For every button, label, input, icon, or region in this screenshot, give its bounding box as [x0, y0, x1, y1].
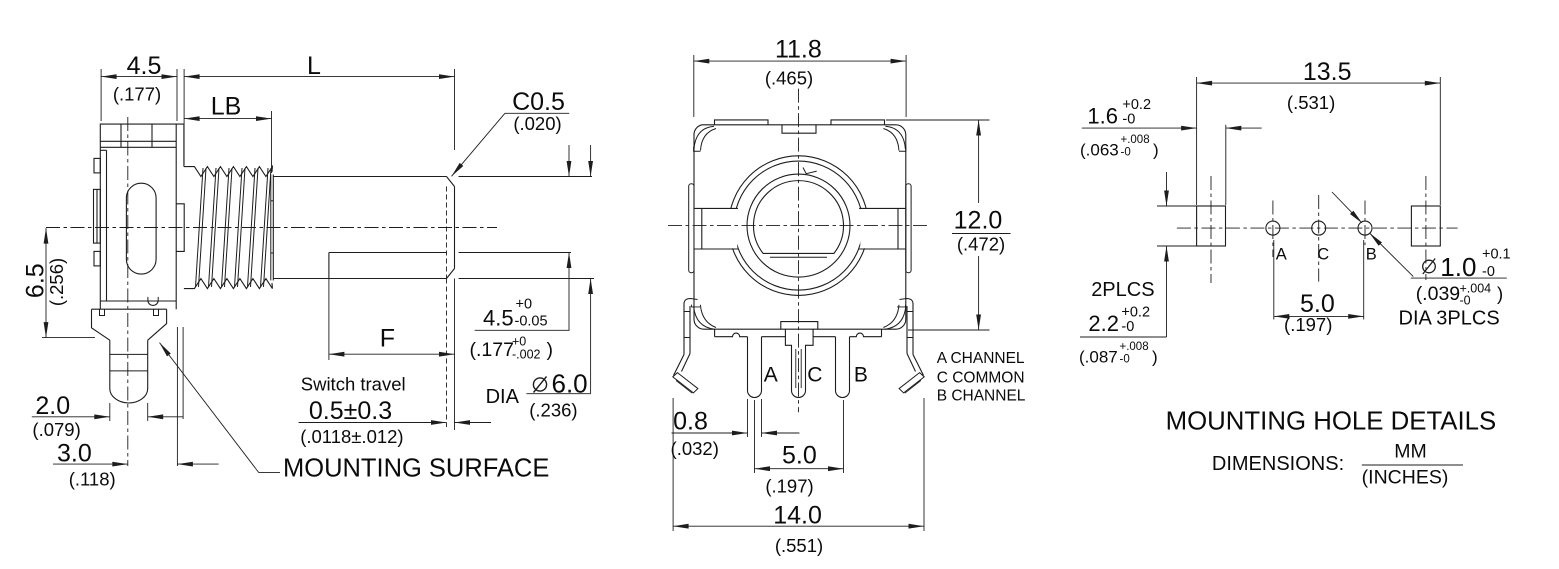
svg-text:(.465): (.465)	[765, 68, 813, 89]
svg-text:-.002: -.002	[512, 348, 541, 362]
svg-text:MOUNTING SURFACE: MOUNTING SURFACE	[283, 455, 549, 483]
front view: inner circles	[747, 174, 850, 277]
dimension switch travel: extension of pressed position	[446, 279, 448, 428]
front view: top-left corner wrap tab	[694, 126, 714, 149]
svg-text:L: L	[307, 52, 321, 80]
svg-text:2PLCS: 2PLCS	[1091, 279, 1154, 301]
mounting view: right hole vertical center line	[1425, 176, 1427, 280]
front view: right side ear	[906, 184, 911, 273]
svg-text:-0: -0	[1482, 264, 1495, 280]
svg-text:3.0: 3.0	[57, 440, 92, 468]
svg-text:-0.05: -0.05	[515, 314, 548, 330]
svg-text:Switch travel: Switch travel	[301, 374, 406, 395]
front view: body outline	[694, 125, 906, 329]
front view: pin C with base	[785, 329, 813, 397]
dimension DIA 6.0: arrows and leader	[590, 145, 592, 177]
dimension 6.5 height: dimension line with arrows	[45, 228, 47, 338]
left view: horizontal center line	[46, 227, 497, 229]
front view: D-shaped shaft hole	[754, 181, 844, 254]
svg-text:-0: -0	[1122, 112, 1135, 128]
left view shaft: flat start step	[328, 253, 330, 279]
dimension switch travel 0.5: leader line	[299, 422, 434, 424]
svg-text:(.087: (.087	[1079, 348, 1118, 367]
svg-text:(.256): (.256)	[46, 258, 67, 306]
dimension L: dimension line	[184, 76, 454, 78]
mounting view: right rectangular hole	[1411, 206, 1440, 246]
svg-text:(INCHES): (INCHES)	[1362, 467, 1449, 489]
svg-text:(.472): (.472)	[957, 234, 1005, 255]
svg-text:(.0118±.012): (.0118±.012)	[300, 426, 403, 447]
svg-text:LB: LB	[211, 93, 242, 121]
dimension L shaft length: extension lines	[183, 69, 185, 165]
dimension 14.0: dimension line	[673, 525, 924, 527]
dimension 3.0 peg offset: leader line and arrows	[53, 463, 115, 465]
mounting view: hole B	[1358, 221, 1372, 235]
dimension LB thread length: extension line	[271, 111, 273, 173]
svg-text:4.5: 4.5	[127, 52, 162, 80]
front view: left bent leg	[683, 303, 685, 355]
front view: rotor circles	[729, 156, 869, 296]
front view: index notch	[803, 168, 817, 174]
left view shaft: top edge	[273, 176, 446, 178]
dimension 4.5-0.05: arrows and leader	[568, 145, 570, 177]
svg-text:DIA 3PLCS: DIA 3PLCS	[1399, 308, 1500, 330]
front view: pin B	[836, 337, 850, 398]
svg-text:B: B	[1366, 245, 1377, 263]
mounting view: hole C	[1312, 221, 1326, 235]
dimension F flat length: extension line	[328, 279, 330, 361]
svg-text:+.008: +.008	[1120, 341, 1149, 353]
svg-text:1.6: 1.6	[1087, 104, 1118, 129]
svg-text:): )	[1152, 348, 1158, 367]
svg-text:-0: -0	[1460, 294, 1471, 308]
dimension 11.8: dimension line	[694, 60, 906, 62]
dimension 2.0 peg width: extension lines	[109, 403, 111, 421]
dimension 14.0 overall width: extension lines	[672, 398, 674, 531]
left view body: left side step tabs	[94, 158, 100, 173]
svg-text:A: A	[1276, 245, 1287, 263]
svg-text:C: C	[807, 364, 822, 387]
mounting view: left rectangular hole	[1197, 206, 1226, 246]
left view: mounting flange	[92, 308, 167, 310]
front view: bottom-left corner wrap tab	[694, 306, 715, 329]
dimension 1.6: dimension line with outside arrows	[1082, 127, 1197, 129]
svg-text:C COMMON: C COMMON	[937, 369, 1025, 386]
left view shaft: end face with chamfer	[454, 187, 456, 269]
svg-text:12.0: 12.0	[954, 207, 1003, 235]
mounting view: left hole vertical center line	[1210, 176, 1212, 283]
front view: vertical center line	[798, 89, 800, 413]
dimension 4.5 body depth: dimension line	[101, 76, 177, 78]
dimension 0.8 pin width: extension lines	[747, 399, 749, 437]
svg-text:5.0: 5.0	[782, 442, 817, 470]
mounting surface callout: leader	[259, 472, 280, 474]
svg-text:(.197): (.197)	[765, 476, 813, 497]
dimension 13.5: extension lines	[1196, 77, 1198, 205]
svg-text:MOUNTING HOLE DETAILS: MOUNTING HOLE DETAILS	[1166, 408, 1497, 436]
svg-text:+0.1: +0.1	[1482, 247, 1511, 263]
hole diameter callout: text	[1423, 260, 1436, 273]
front view: top-right corner wrap tab	[885, 126, 905, 149]
svg-text:(.177): (.177)	[113, 84, 161, 105]
dimension 2.2: arrows and leader	[1166, 172, 1168, 193]
svg-text:(.063: (.063	[1080, 141, 1119, 160]
dimension F: dimension line	[329, 353, 455, 355]
svg-text:): )	[547, 339, 554, 361]
svg-text:6.0: 6.0	[552, 369, 588, 399]
front view: top center tab	[782, 125, 816, 133]
front view: side channel cutouts	[695, 209, 738, 248]
svg-text:DIMENSIONS:: DIMENSIONS:	[1212, 453, 1344, 475]
svg-text:C: C	[1317, 246, 1329, 264]
left view body: stadium slot	[126, 183, 156, 274]
svg-text:-0: -0	[1121, 319, 1134, 335]
svg-text:-0: -0	[1121, 147, 1131, 159]
left view: snap-in peg	[109, 340, 111, 388]
svg-text:B: B	[854, 364, 868, 387]
left view shaft: D-flat edge	[329, 252, 447, 254]
dimension 12.0 body height: extension lines	[886, 119, 990, 121]
left view shaft: switch-travel hidden line	[446, 187, 448, 279]
dimension 2.0: leader line and arrows	[32, 416, 97, 418]
mounting view: hole A	[1266, 221, 1280, 235]
dimension 4.5 body depth: extension lines	[100, 69, 102, 121]
svg-text:DIA: DIA	[486, 386, 520, 408]
mounting view: horizontal center line	[1177, 227, 1458, 229]
front view: left side ear	[689, 184, 694, 273]
front view: top mounting tabs	[715, 120, 769, 125]
svg-text:(.118): (.118)	[69, 469, 116, 490]
svg-text:B CHANNEL: B CHANNEL	[937, 387, 1026, 404]
svg-text:2.2: 2.2	[1088, 311, 1119, 336]
svg-text:11.8: 11.8	[775, 36, 822, 64]
left view body: bushing boss	[176, 204, 184, 252]
chamfer callout C0.5: leader	[505, 112, 569, 114]
dimension 12.0: dimension line	[978, 120, 980, 203]
dimension 5.0 hole span: extension lines	[1273, 240, 1275, 320]
dimension 5.0 hole span: dimension line	[1274, 315, 1364, 317]
svg-text:(.236): (.236)	[529, 400, 577, 421]
left view body: top band lines	[100, 140, 176, 142]
front view: bottom-right corner wrap tab	[885, 306, 906, 329]
dimension 5.0 pin span: extension lines	[754, 400, 756, 473]
left view: thread end face	[270, 175, 272, 281]
front view: pin A	[748, 337, 762, 398]
left view: thread helix lines	[196, 168, 204, 287]
front view: bottom skirt	[714, 329, 716, 337]
dimension 1.6: extension line	[1225, 125, 1227, 205]
svg-text:A: A	[764, 364, 778, 387]
dimension 4.5-0.05 across flat: extension lines	[459, 176, 593, 178]
hole diameter callout: lower leader	[1370, 233, 1383, 246]
svg-text:+.008: +.008	[1121, 134, 1150, 146]
svg-text:0.8: 0.8	[673, 408, 708, 436]
dimension 5.0: dimension line	[755, 468, 844, 470]
svg-text:(.531): (.531)	[1287, 92, 1335, 113]
svg-text:(.039: (.039	[1416, 283, 1460, 305]
left view: mounting-surface extension lines	[176, 327, 178, 466]
front view: bottom center tab	[781, 322, 818, 330]
svg-text:(.079): (.079)	[32, 419, 80, 440]
dimension 4.5-0.05: flat extension line	[459, 252, 572, 254]
svg-text:2.0: 2.0	[35, 392, 70, 420]
svg-text:14.0: 14.0	[773, 502, 822, 530]
svg-text:(.197): (.197)	[1284, 314, 1332, 335]
svg-text:MM: MM	[1394, 441, 1427, 463]
left view body: inner frame	[106, 150, 108, 301]
svg-text:-0: -0	[1120, 354, 1130, 366]
svg-text:): )	[1497, 283, 1503, 304]
front view: right bent leg	[912, 303, 914, 355]
left view body: outer block	[100, 124, 184, 309]
dimension 13.5: dimension line	[1197, 82, 1441, 84]
svg-text:(.020): (.020)	[513, 113, 561, 134]
left view shaft: bottom edge	[273, 278, 446, 280]
left view: threaded bushing M7 top profile	[184, 167, 273, 177]
svg-text:+0: +0	[516, 297, 533, 313]
dimension 11.8 body width: extension lines	[693, 55, 695, 117]
svg-text:0.5±0.3: 0.5±0.3	[309, 397, 392, 425]
dimension 0.8: leader and arrows	[672, 432, 735, 434]
front view: horizontal center line	[668, 225, 928, 227]
svg-text:1.0: 1.0	[1440, 252, 1476, 282]
left view: vertical center line of snap-in peg	[127, 117, 129, 466]
svg-text:4.5: 4.5	[483, 306, 514, 331]
svg-text:F: F	[380, 325, 395, 353]
left view body: bottom U-notch	[148, 301, 158, 305]
svg-text:(.551): (.551)	[775, 535, 823, 556]
svg-text:): )	[1153, 141, 1159, 160]
hole diameter callout: upper leader arrow	[1332, 192, 1357, 217]
svg-text:(.177: (.177	[470, 339, 514, 361]
svg-text:+0: +0	[512, 335, 526, 349]
left view: threaded bushing bottom profile	[184, 279, 273, 289]
dimension LB: dimension line	[184, 118, 271, 120]
svg-text:C0.5: C0.5	[512, 88, 565, 116]
svg-text:A CHANNEL: A CHANNEL	[937, 350, 1025, 367]
svg-text:(.032): (.032)	[671, 438, 719, 459]
dimension 2.2: extension lines	[1157, 205, 1197, 207]
svg-text:13.5: 13.5	[1303, 58, 1352, 86]
